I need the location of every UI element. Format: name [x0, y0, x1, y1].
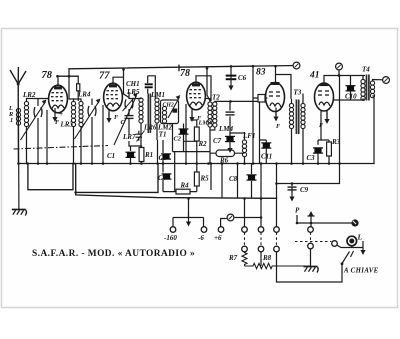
svg-text:C6: C6 — [238, 74, 247, 82]
svg-text:LM4: LM4 — [218, 125, 234, 133]
terminal 1 — [293, 62, 300, 69]
detector RC: wire box — [129, 141, 142, 164]
cathode arrow V2 — [106, 109, 111, 123]
terminal -160 — [170, 227, 176, 233]
svg-text:C4: C4 — [158, 174, 167, 182]
resistor R6 — [210, 133, 245, 164]
tube V1 78 — [49, 85, 68, 113]
coil LR6 — [139, 98, 143, 123]
wire top bus — [69, 66, 296, 69]
svg-text:C5: C5 — [159, 154, 168, 162]
svg-text:77: 77 — [99, 71, 110, 82]
wires LR1 LR2 — [19, 99, 49, 164]
circled terminal 2 — [227, 214, 234, 221]
svg-text:R8: R8 — [262, 254, 272, 262]
capacitor C11 — [261, 143, 271, 148]
capacitor C2 — [173, 124, 197, 152]
svg-text:T2: T2 — [212, 94, 220, 102]
svg-text:C3: C3 — [307, 154, 316, 162]
resistor R8 zigzag — [245, 263, 311, 268]
resistor R7 zigzag — [242, 252, 247, 266]
svg-text:R7: R7 — [228, 254, 238, 262]
svg-text:LM3: LM3 — [198, 120, 212, 127]
capacitor C5 — [161, 154, 171, 159]
svg-text:78: 78 — [180, 68, 190, 79]
svg-text:C7: C7 — [213, 137, 222, 145]
svg-text:R1: R1 — [144, 151, 153, 159]
capacitor C9 — [288, 187, 297, 190]
wire L-shape to switch — [261, 249, 342, 282]
terminal -6 — [201, 227, 207, 233]
svg-text:R2: R2 — [198, 140, 208, 148]
svg-text:R4: R4 — [180, 181, 190, 189]
wire V1 top cap — [47, 69, 74, 164]
terminal 3 — [336, 63, 343, 70]
cathode arrow V3 — [189, 108, 194, 122]
capacitor at CH1 — [145, 84, 153, 87]
bottom terminals row — [242, 227, 248, 233]
terminal +6 — [218, 227, 224, 233]
variable capacitor CV1 — [21, 100, 47, 141]
tube V4 83 — [266, 82, 285, 112]
svg-text:+6: +6 — [214, 234, 222, 242]
coil CH2w — [162, 106, 166, 123]
capacitor C7 — [225, 136, 235, 141]
svg-text:+: + — [59, 110, 63, 118]
coil LM1w — [155, 98, 159, 123]
svg-text:C9: C9 — [300, 186, 309, 194]
IF transformer core — [148, 94, 150, 134]
switch tick — [351, 251, 354, 257]
wire right lower branch — [277, 164, 340, 193]
capacitor LM4 — [226, 112, 235, 115]
antenna — [10, 67, 26, 164]
black terminal — [351, 219, 358, 226]
fixed cap below CV3 — [125, 116, 134, 119]
coil LF1 — [242, 140, 246, 157]
svg-text:LR2: LR2 — [22, 91, 36, 99]
svg-text:T4: T4 — [362, 66, 370, 74]
dashed drops — [245, 232, 332, 246]
capacitor C1 — [126, 152, 136, 157]
wire R5 leads — [173, 152, 211, 192]
trimmer LR7 — [136, 131, 145, 142]
arrow up at battery feed — [308, 213, 315, 217]
capacitor C3 — [313, 148, 323, 153]
svg-text:T1: T1 — [159, 131, 167, 139]
svg-text:C8: C8 — [229, 175, 238, 183]
svg-text:C2: C2 — [174, 136, 181, 143]
svg-text:LR4: LR4 — [77, 91, 91, 99]
second IF tube V3 78 — [187, 82, 206, 110]
switch wiring — [337, 245, 363, 264]
svg-text:T3: T3 — [294, 89, 302, 97]
lower circles — [242, 246, 248, 252]
resistor R4 — [176, 189, 190, 194]
coil LR4b — [79, 101, 83, 126]
cathode arrow V1 — [52, 108, 57, 122]
tube V5 41 — [315, 83, 334, 111]
svg-text:C10: C10 — [345, 93, 357, 101]
lower power wiring — [158, 140, 352, 227]
svg-text:-6: -6 — [198, 234, 204, 242]
capacitor C10 — [346, 86, 356, 91]
wire main horizontal bus — [19, 163, 375, 165]
svg-text:S.A.F.A.R. - MOD. « AUTORADIO: S.A.F.A.R. - MOD. « AUTORADIO » — [32, 249, 195, 259]
svg-text:CH1: CH1 — [126, 80, 140, 88]
terminal 4 — [383, 77, 390, 84]
wire second top bus — [58, 75, 79, 77]
wire sub bus y=186.5 — [28, 164, 73, 190]
resistor R5 — [194, 172, 199, 186]
resistor R2 — [194, 127, 199, 141]
tube V2 77 — [104, 83, 123, 111]
svg-text:CH2: CH2 — [163, 103, 174, 109]
svg-text:C1: C1 — [107, 152, 115, 160]
capacitor C4 — [162, 174, 172, 179]
coil LR1 — [16, 108, 20, 125]
wire +6 terminal — [221, 219, 227, 228]
battery bracket — [173, 199, 204, 228]
switch open circle — [332, 241, 338, 247]
wire circled2 to right — [235, 217, 261, 219]
svg-text:LR5: LR5 — [126, 88, 140, 96]
coil LR2 — [24, 101, 28, 126]
battery arrow — [186, 213, 191, 227]
verticals to bottom terminals — [245, 164, 277, 228]
lamp L — [347, 236, 357, 246]
wire R4 series line — [163, 191, 197, 193]
svg-text:78: 78 — [42, 70, 53, 81]
junction dots on buses — [17, 65, 341, 224]
ground (antenna) — [12, 210, 27, 216]
svg-text:P: P — [295, 207, 300, 215]
arrow down right of lamp — [360, 241, 365, 255]
wire mid verticals — [211, 164, 252, 199]
coil LR4a — [71, 101, 75, 126]
tuning gang dash-dot line — [14, 146, 109, 150]
svg-text:83: 83 — [256, 68, 266, 78]
box CH2 — [161, 100, 179, 124]
wire P stub — [297, 215, 352, 223]
svg-text:LR7: LR7 — [122, 133, 136, 141]
resistor R1 — [139, 148, 144, 162]
wire C5/C4 chain — [158, 140, 164, 192]
wire V2 top cap — [103, 69, 129, 163]
svg-text:41: 41 — [309, 71, 320, 81]
svg-text:L: L — [357, 233, 363, 242]
ground 2 — [304, 267, 319, 273]
variable cap CV3 — [125, 100, 133, 109]
C6 capacitor — [226, 76, 237, 80]
svg-text:R5: R5 — [200, 175, 210, 183]
svg-text:A CHIAVE: A CHIAVE — [343, 268, 379, 275]
wire bus y=198.5 — [76, 164, 277, 199]
svg-text:1: 1 — [10, 117, 13, 124]
trimmer arrow in box — [173, 109, 178, 113]
svg-text:R6: R6 — [219, 156, 229, 164]
small resistor on bus — [74, 76, 82, 163]
variable capacitor CV2 — [75, 99, 101, 140]
wire arrow up lead — [310, 217, 312, 227]
svg-text:-160: -160 — [164, 234, 177, 242]
capacitor C8 — [247, 175, 257, 180]
resistor R3 — [327, 142, 332, 156]
